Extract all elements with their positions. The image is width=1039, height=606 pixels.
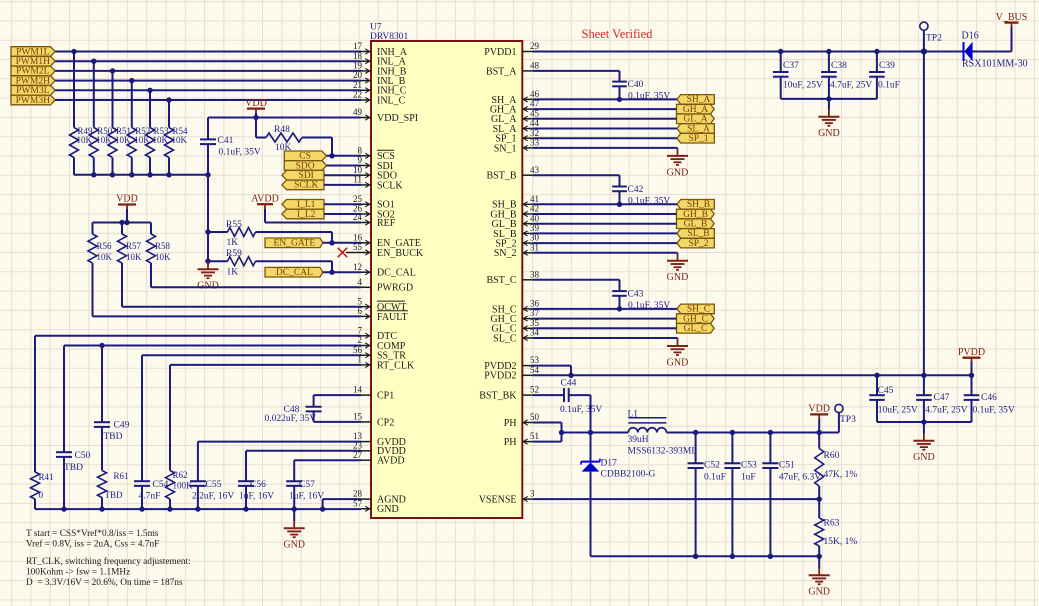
capacitor C49 TBD	[94, 420, 130, 470]
resistor R51 10K pulldown	[108, 71, 131, 175]
svg-text:C57: C57	[299, 480, 315, 490]
wire to group ground	[532, 252, 677, 255]
power AVDD	[251, 193, 279, 222]
svg-text:C47: C47	[934, 393, 950, 403]
pin 2 COMP (left)	[358, 335, 406, 352]
svg-text:0: 0	[39, 490, 44, 500]
svg-text:C45: C45	[878, 386, 894, 396]
svg-text:7: 7	[358, 325, 363, 335]
pin 54 PVDD2 (right)	[484, 365, 539, 382]
wire RT_CLK pin 1 net	[170, 365, 361, 471]
svg-text:Sheet Verified: Sheet Verified	[582, 27, 654, 41]
port SH_C	[677, 304, 714, 315]
svg-text:46: 46	[530, 89, 540, 99]
svg-text:10K: 10K	[155, 252, 171, 262]
svg-text:C54: C54	[153, 480, 169, 490]
svg-text:1uF, 16V: 1uF, 16V	[239, 492, 274, 502]
wire PVDD1 pin 29 to diode D16	[532, 48, 963, 54]
svg-text:PWRGD: PWRGD	[377, 283, 413, 294]
svg-text:14: 14	[353, 385, 363, 395]
svg-text:FAULT: FAULT	[377, 312, 408, 323]
pin 35 GL_C (right)	[492, 318, 540, 335]
svg-text:RT_CLK: RT_CLK	[377, 360, 415, 371]
svg-text:DC_CAL: DC_CAL	[276, 268, 313, 278]
svg-text:PVDD2: PVDD2	[484, 371, 516, 382]
svg-text:V_BUS: V_BUS	[996, 12, 1028, 23]
port SL_B	[677, 229, 714, 240]
capacitor C44 0.1uF 35V	[532, 379, 602, 433]
svg-text:D17: D17	[601, 458, 618, 468]
wire DC_CAL to pin 12	[323, 270, 361, 275]
wire CP2 pin 15	[314, 421, 361, 423]
pin 49 VDD_SPI (left)	[353, 107, 418, 124]
wire AVDD to REF pin 24	[265, 222, 361, 224]
svg-text:50: 50	[530, 412, 540, 422]
svg-text:REF: REF	[377, 218, 396, 229]
svg-text:T start = CSS*Vref*0.8/iss = 1: T start = CSS*Vref*0.8/iss = 1.5ms	[26, 528, 159, 539]
svg-text:C37: C37	[783, 61, 799, 71]
power VDD (right)	[808, 404, 830, 433]
capacitor C57 1uF 16V	[286, 480, 324, 509]
svg-text:PH: PH	[504, 418, 517, 429]
ground GND (group)	[667, 254, 689, 284]
pin 14 CP1 (left)	[353, 385, 394, 402]
svg-text:VDD: VDD	[808, 404, 830, 415]
resistor R62 100K	[166, 470, 194, 509]
text Sheet Verified	[582, 27, 654, 41]
pin 3 VSENSE (right)	[479, 489, 535, 506]
wire AGND pin 28 jog	[323, 499, 361, 509]
svg-text:GND: GND	[377, 504, 399, 515]
svg-text:D16: D16	[962, 30, 979, 41]
svg-text:0.1uF, 35V: 0.1uF, 35V	[219, 148, 261, 158]
wire I_L2 to SO2 pin 26	[324, 213, 361, 215]
power VDD (left, above R56-R58)	[116, 194, 138, 223]
svg-text:4.7uF, 25V: 4.7uF, 25V	[925, 405, 967, 415]
wire GL_B	[532, 223, 676, 225]
svg-text:GND: GND	[913, 452, 935, 463]
wire I_L1 to SO1 pin 25	[324, 203, 361, 205]
pin 30 SP_2 (right)	[495, 233, 539, 250]
svg-text:R62: R62	[173, 470, 188, 480]
svg-text:52: 52	[530, 385, 539, 395]
svg-text:5: 5	[358, 296, 363, 306]
power PVDD	[958, 347, 985, 375]
svg-text:0.1uF, 35V: 0.1uF, 35V	[560, 405, 602, 415]
wire PWM2L to pin	[55, 68, 361, 73]
wire C49/R61 branch	[101, 346, 103, 423]
svg-text:100Kohm -> fsw = 1.1MHz: 100Kohm -> fsw = 1.1MHz	[26, 566, 130, 577]
power V_BUS	[996, 12, 1028, 52]
pin 52 BST_BK (right)	[479, 385, 539, 402]
svg-text:EN_BUCK: EN_BUCK	[377, 248, 424, 259]
pin 51 PH (right)	[504, 431, 539, 448]
wire SL_A	[532, 128, 677, 130]
svg-text:SP_2: SP_2	[688, 239, 708, 249]
wire GH_B	[532, 213, 676, 215]
pin 56 SS_TR (left)	[353, 345, 406, 362]
wire SS_TR pin 56 net	[142, 355, 361, 481]
svg-text:R61: R61	[114, 471, 129, 481]
capacitor C43 0.1uF 35V	[532, 280, 670, 312]
svg-text:PVDD1: PVDD1	[484, 47, 516, 58]
svg-text:RT_CLK, switching frequency ad: RT_CLK, switching frequency adjustement:	[26, 556, 191, 567]
ground GND (group)	[667, 149, 689, 179]
svg-text:16: 16	[353, 232, 363, 242]
pin 25 SO1 (left)	[353, 194, 395, 211]
wire R57 to OCWT pin 5	[122, 263, 361, 307]
port SDO	[284, 161, 326, 172]
pin 57 GND (left)	[353, 498, 399, 515]
pin 55 EN_BUCK (left)	[353, 242, 424, 259]
svg-text:4: 4	[358, 277, 363, 287]
svg-text:BST_C: BST_C	[486, 275, 516, 286]
resistor R49 10K pulldown	[70, 52, 94, 175]
svg-text:TBD: TBD	[105, 490, 124, 500]
diode D16 RSX101MM-30	[962, 30, 1028, 69]
wire R56 to FAULT pin 6	[93, 263, 362, 316]
port I_L2	[282, 209, 324, 220]
svg-text:38: 38	[530, 269, 540, 279]
svg-text:GND: GND	[818, 128, 840, 139]
svg-text:R48: R48	[274, 125, 290, 135]
wire to group ground	[532, 337, 677, 340]
note text block 2	[26, 556, 191, 588]
svg-text:BST_BK: BST_BK	[479, 391, 517, 402]
port SH_A	[677, 95, 714, 106]
svg-text:10uF, 25V: 10uF, 25V	[878, 405, 918, 415]
svg-text:C56: C56	[250, 480, 266, 490]
wire VDD pullup rail	[93, 220, 152, 225]
svg-text:12: 12	[353, 262, 362, 272]
ground GND (group)	[667, 339, 689, 369]
port CS	[284, 151, 326, 162]
svg-text:10K: 10K	[97, 252, 113, 262]
pin 38 BST_C (right)	[486, 269, 539, 286]
pin 15 CP2 (left)	[353, 412, 394, 429]
port SP_1	[677, 133, 714, 144]
svg-text:AVDD: AVDD	[377, 456, 405, 467]
svg-text:4.7uF, 25V: 4.7uF, 25V	[830, 80, 872, 90]
svg-text:10uF, 25V: 10uF, 25V	[783, 80, 823, 90]
svg-text:SP_1: SP_1	[688, 134, 708, 144]
capacitor C39 0.1uF	[869, 52, 900, 99]
svg-text:48: 48	[530, 61, 540, 71]
svg-text:47K, 1%: 47K, 1%	[824, 470, 858, 480]
svg-text:10K: 10K	[126, 252, 142, 262]
svg-text:R56: R56	[97, 241, 113, 251]
resistor R58 10K	[147, 223, 172, 264]
svg-text:28: 28	[353, 489, 363, 499]
ground GND (below C41)	[197, 262, 219, 292]
resistor R41 0	[31, 472, 54, 509]
no-ERC marker on EN_BUCK pin 55	[338, 248, 361, 257]
wire TP2 vertical to PVDD2 net	[923, 52, 925, 376]
capacitor C55 2.2uF 16V	[190, 480, 234, 509]
pin 16 EN_GATE (left)	[353, 232, 421, 249]
power VDD (top, near VDD_SPI)	[245, 98, 267, 118]
svg-text:I_L2: I_L2	[297, 210, 316, 220]
svg-text:SCLK: SCLK	[294, 181, 318, 191]
capacitor C41 0.1uF 35V	[200, 118, 261, 264]
test point TP3	[835, 404, 856, 432]
resistor R54 10K pulldown	[165, 100, 189, 175]
wire PWM1L to pin	[55, 49, 361, 54]
resistor R57 10K	[118, 223, 143, 264]
pin 40 GL_B (right)	[492, 213, 540, 230]
port GL_B	[677, 219, 715, 230]
svg-text:4.7nF: 4.7nF	[139, 492, 161, 502]
svg-text:VSENSE: VSENSE	[479, 495, 517, 506]
svg-text:DRV8301: DRV8301	[370, 32, 409, 42]
pin 41 SH_B (right)	[492, 194, 539, 211]
svg-text:R60: R60	[824, 451, 840, 461]
svg-text:25: 25	[353, 194, 363, 204]
port SL_A	[677, 124, 714, 135]
wire GL_A	[532, 118, 676, 120]
pin 19 INH_B (left)	[353, 61, 407, 78]
pin 6 FAULT (left)	[358, 306, 409, 323]
port DC_CAL	[265, 267, 323, 278]
pin 5 OCWT (left)	[358, 296, 407, 313]
port PWM3H	[11, 95, 55, 106]
capacitor C47 4.7uF 25V	[916, 375, 967, 422]
svg-text:BST_A: BST_A	[486, 66, 517, 77]
ground GND (C37-C39)	[818, 99, 840, 139]
pin 9 SDI (left)	[358, 155, 394, 172]
port I_L1	[282, 200, 324, 211]
capacitor C54 4.7nF	[134, 480, 169, 509]
svg-text:DC_CAL: DC_CAL	[377, 268, 416, 279]
resistor R60 47K 1%	[815, 433, 858, 500]
diode D17 CDBB2100-G schottky	[581, 433, 656, 557]
svg-text:PH: PH	[504, 437, 517, 448]
wire PWM3L to pin	[55, 88, 361, 93]
wire SDO to pin 9	[327, 165, 362, 167]
wire GH_C	[532, 318, 676, 320]
wire C37-C39 ground rail	[781, 96, 877, 101]
capacitor C42 0.1uF 35V	[532, 175, 670, 207]
svg-text:R63: R63	[824, 518, 840, 528]
port GL_A	[677, 114, 715, 125]
pin 44 SL_A (right)	[493, 118, 540, 135]
svg-text:10K: 10K	[172, 135, 188, 145]
svg-text:GND: GND	[667, 167, 689, 178]
wire GL_C	[532, 327, 676, 329]
pin 36 SH_C (right)	[492, 299, 539, 316]
pin 42 GH_B (right)	[490, 204, 539, 221]
port EN_GATE	[265, 238, 323, 249]
note text block 1	[26, 528, 159, 550]
svg-text:TP2: TP2	[926, 34, 942, 44]
pin 27 AVDD (left)	[353, 450, 405, 467]
svg-text:C55: C55	[206, 480, 222, 490]
svg-text:0.1uF: 0.1uF	[704, 473, 726, 483]
wire SP_1	[532, 137, 677, 139]
svg-text:8: 8	[358, 145, 363, 155]
wire PH net to VDD/TP3	[666, 430, 839, 435]
svg-text:C38: C38	[831, 61, 847, 71]
svg-text:43: 43	[530, 165, 540, 175]
pin 48 BST_A (right)	[486, 61, 540, 78]
port PWM1L	[11, 47, 55, 58]
wire CS to SCS pin 8	[327, 153, 362, 158]
svg-text:15K, 1%: 15K, 1%	[824, 537, 858, 547]
svg-text:29: 29	[530, 41, 540, 51]
svg-text:49: 49	[353, 107, 363, 117]
resistor R52 10K pulldown	[127, 81, 150, 175]
port PWM3L	[11, 86, 55, 97]
port GH_C	[677, 314, 715, 325]
port SDI	[282, 170, 324, 181]
svg-text:1uF, 16V: 1uF, 16V	[289, 492, 324, 502]
svg-text:39uH: 39uH	[628, 435, 649, 445]
svg-text:0.1uF, 35V: 0.1uF, 35V	[973, 405, 1015, 415]
svg-text:C40: C40	[628, 80, 644, 90]
capacitor C40 0.1uF 35V	[532, 71, 670, 102]
svg-text:36: 36	[530, 299, 540, 309]
wire R58 to PWRGD pin 4	[151, 263, 361, 287]
pin 17 INH_A (left)	[353, 41, 408, 58]
pin 32 SP_1 (right)	[495, 128, 539, 145]
capacitor C50 TBD	[56, 451, 91, 509]
wire SH_B	[532, 203, 677, 205]
capacitor C38 4.7uF 25V	[821, 52, 872, 99]
svg-text:GND: GND	[197, 281, 219, 292]
svg-text:R55: R55	[226, 220, 242, 230]
svg-text:SN_2: SN_2	[494, 248, 517, 259]
pin 46 SH_A (right)	[491, 89, 539, 106]
wire SP_2	[532, 242, 677, 244]
pin 12 DC_CAL (left)	[353, 262, 416, 279]
svg-text:C46: C46	[981, 393, 997, 403]
wire GH_A	[532, 108, 676, 110]
svg-text:0.1uF: 0.1uF	[878, 80, 900, 90]
pin 34 SL_C (right)	[493, 328, 539, 345]
wire to group ground	[532, 147, 677, 150]
wire AVDD pin 27 net	[294, 460, 361, 481]
pin 4 PWRGD (left)	[358, 277, 414, 294]
resistor R50 10K pulldown	[89, 61, 113, 175]
svg-text:Vref = 0.8V, iss = 2uA, Css =: Vref = 0.8V, iss = 2uA, Css = 4.7nF	[26, 538, 159, 549]
svg-text:C39: C39	[879, 61, 895, 71]
pin 29 PVDD1 (right)	[484, 41, 539, 58]
capacitor C56 1uF 16V	[238, 480, 274, 509]
port SH_B	[677, 200, 714, 211]
svg-text:3: 3	[530, 489, 535, 499]
svg-text:C50: C50	[75, 451, 91, 461]
ground GND (buck)	[808, 556, 830, 597]
resistor R61 TBD	[98, 471, 129, 510]
capacitor C45 10uF 25V	[869, 375, 918, 422]
resistor R48 10K	[256, 118, 332, 156]
svg-text:1uF: 1uF	[741, 473, 756, 483]
pin 26 SO2 (left)	[353, 204, 395, 221]
pin 18 INL_A (left)	[353, 51, 407, 68]
pin 45 GL_A (right)	[491, 108, 540, 125]
wire SL_B	[532, 232, 677, 234]
svg-text:AVDD: AVDD	[251, 193, 279, 204]
svg-text:PWM3H: PWM3H	[16, 96, 50, 106]
port GH_A	[677, 104, 715, 115]
svg-text:1K: 1K	[227, 267, 239, 277]
pin 31 SN_2 (right)	[494, 242, 539, 259]
svg-text:41: 41	[530, 194, 539, 204]
pin 24 REF (left)	[353, 212, 396, 229]
svg-text:EN_GATE: EN_GATE	[274, 239, 316, 249]
pin 8 SCS (left)	[358, 145, 395, 162]
wire bottom GND rail	[35, 506, 361, 511]
svg-text:0.022uF, 35V: 0.022uF, 35V	[265, 414, 317, 424]
port PWM1H	[11, 56, 55, 67]
wire PWM1H to pin	[55, 59, 361, 64]
svg-text:RSX101MM-30: RSX101MM-30	[962, 59, 1028, 70]
svg-text:C44: C44	[561, 379, 577, 389]
svg-text:R41: R41	[39, 472, 54, 482]
svg-text:SL_C: SL_C	[493, 333, 517, 344]
svg-text:VDD: VDD	[116, 194, 138, 205]
svg-text:R57: R57	[126, 241, 142, 251]
wire buck ground rail	[591, 554, 822, 559]
svg-text:C51: C51	[779, 461, 795, 471]
resistor R63 15K 1%	[815, 499, 858, 556]
pin 28 AGND (left)	[353, 489, 406, 506]
svg-text:51: 51	[530, 431, 539, 441]
wire EN_GATE to pin 16	[323, 240, 361, 245]
svg-text:D = 3.3V/16V = 20.6%, On time: D = 3.3V/16V = 20.6%, On time = 187ns	[26, 578, 183, 588]
pin 20 INL_B (left)	[353, 70, 406, 87]
svg-text:C53: C53	[741, 461, 757, 471]
svg-text:L1: L1	[628, 409, 639, 419]
op-amp U1 IC U7 DRV8301 body	[370, 23, 522, 518]
wire SH_A	[532, 98, 677, 100]
pin 7 DTC (left)	[358, 325, 398, 342]
svg-text:TBD: TBD	[64, 463, 83, 473]
resistor R56 10K	[88, 223, 113, 264]
resistor R53 10K pulldown	[146, 90, 170, 175]
port GL_C	[677, 324, 715, 335]
svg-text:R58: R58	[155, 241, 171, 251]
svg-text:TBD: TBD	[104, 432, 123, 442]
pin 11 SCLK (left)	[353, 175, 403, 192]
svg-text:BST_B: BST_B	[486, 171, 516, 182]
wire VDD_SPI net	[208, 115, 361, 120]
pin 50 PH (right)	[504, 412, 540, 429]
pin 1 RT_CLK (left)	[358, 355, 415, 372]
resistor R55 1K	[208, 220, 332, 248]
svg-text:GND: GND	[283, 540, 305, 551]
ground GND (PVDD caps)	[913, 422, 935, 463]
svg-text:TP3: TP3	[840, 415, 856, 425]
svg-text:R59: R59	[226, 249, 242, 259]
pin 53 PVDD2 (right)	[484, 355, 539, 372]
test point TP2	[920, 22, 942, 51]
wire PVDD2 pins 53/54	[532, 366, 974, 378]
svg-text:15: 15	[353, 412, 363, 422]
pin 47 GH_A (right)	[490, 99, 540, 116]
wire DTC pin 7 net	[35, 336, 361, 472]
resistor R59 1K	[208, 249, 332, 277]
svg-text:VDD: VDD	[245, 98, 267, 109]
wire VSENSE pin 3	[532, 496, 822, 501]
svg-text:C41: C41	[218, 136, 234, 146]
pin 22 INL_C (left)	[353, 90, 406, 107]
wire SH_C	[532, 308, 677, 310]
capacitor C52 0.1uF	[688, 433, 726, 557]
wire PWM2H to pin	[55, 78, 361, 83]
capacitor C51 47uF 6.3V	[762, 433, 821, 557]
pin 13 GVDD (left)	[353, 431, 406, 448]
